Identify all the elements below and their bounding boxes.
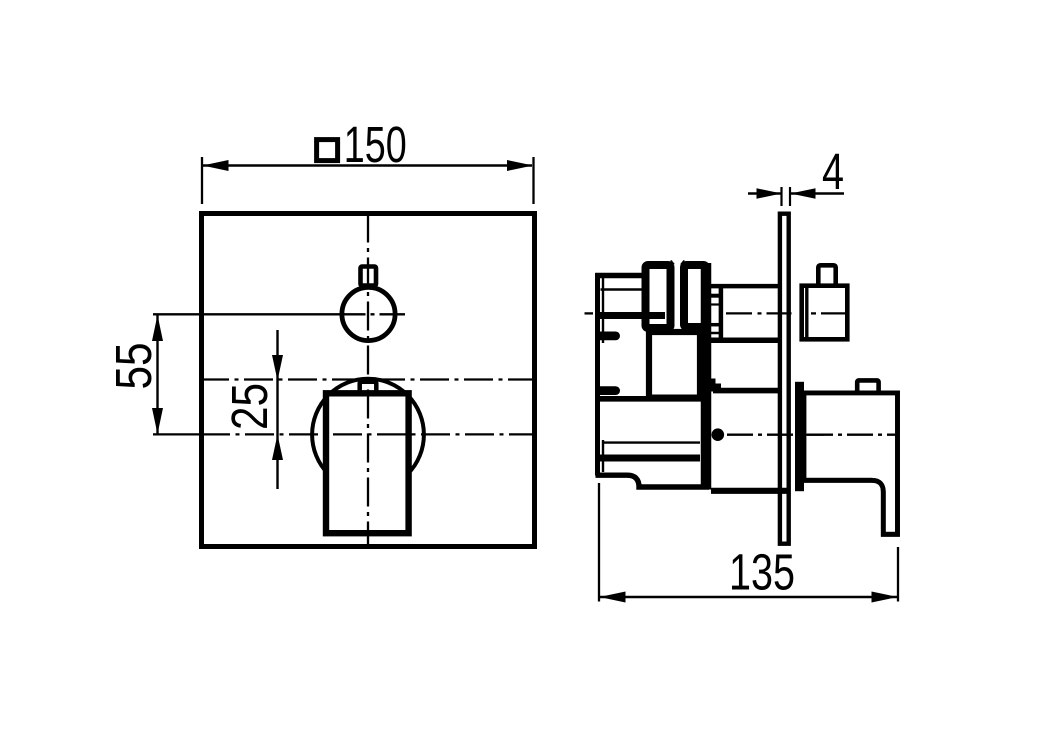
vertical centerline of plate: [367, 214, 369, 547]
dimension 150: dimension line with arrows: [203, 160, 534, 171]
grub screw dot on lever centerline: [712, 428, 725, 441]
wall plate (side view, 4mm): [780, 214, 789, 544]
dimension 150: text: [344, 116, 407, 173]
svg-text:135: 135: [729, 544, 795, 601]
dimension 55: dimension line: [152, 315, 163, 434]
valve body: inner thin vertical line (lower): [602, 440, 604, 472]
dimension 55: text: [105, 343, 162, 390]
knob stem tab (front, top knob): [361, 267, 377, 286]
valve body: top edge: [595, 273, 643, 279]
lever tab (side): [857, 380, 878, 394]
valve body: mid horizontal edge: [599, 396, 703, 402]
svg-text:25: 25: [221, 383, 278, 430]
valve body: inner thin vertical line (upper): [602, 277, 604, 343]
lever boss circle (front): [312, 379, 424, 491]
valve body: thick band at upper centerline: [598, 312, 664, 319]
svg-text:55: 55: [105, 343, 162, 390]
knob center extension line (55 dim, top): [153, 313, 405, 315]
diverter knob (side): [802, 286, 848, 340]
valve body: band across post A: [598, 312, 665, 319]
front plate (150x150 square escutcheon): [202, 214, 535, 547]
valve body: lower thin line: [603, 441, 700, 443]
lever stem tab (front): [360, 382, 377, 394]
valve body: notch between posts: [671, 260, 685, 268]
svg-text:4: 4: [822, 143, 844, 200]
lower sleeve bottom edge (crosses plate): [711, 488, 789, 494]
lever centerline / extension line (55 dim, bottom): [153, 433, 535, 435]
valve body: right vertical bar: [701, 263, 712, 490]
lower spindle sleeve edges: [711, 379, 780, 392]
dimension 135: extension lines: [599, 483, 898, 602]
svg-text:150: 150: [344, 116, 407, 173]
knob tab (side): [818, 265, 835, 287]
valve body: bottom edge with step: [596, 475, 710, 487]
dimension 25: text: [221, 383, 278, 430]
valve body: upper port lug: [595, 332, 620, 341]
valve body: cartridge block: [649, 332, 700, 398]
valve body: post A (upper left boss): [646, 265, 671, 328]
dimension 25: dimension line: [272, 330, 283, 489]
diverter knob circle (front): [342, 287, 395, 340]
valve body: lower thick band: [600, 455, 700, 462]
horizontal centerline of plate: [200, 378, 535, 380]
dimension 135: text: [729, 544, 795, 601]
upper spindle sleeve edges: [706, 286, 780, 340]
dimension 4: lines and arrows: [748, 187, 844, 206]
lever collar (side): [795, 382, 804, 491]
dimension 135: dimension line with arrows: [600, 592, 898, 603]
dimension 4: text: [822, 143, 844, 200]
valve body: lower port lug: [595, 386, 620, 395]
lever handle rectangle (front): [326, 393, 409, 533]
valve body: upper thin line: [601, 288, 643, 290]
valve body: post B (upper right boss): [684, 265, 706, 327]
valve body: left outer edge: [595, 273, 600, 476]
spindle ribs (upper): [708, 284, 721, 340]
lower centerline (side view): [727, 434, 897, 436]
dimension 150: square symbol: [317, 140, 338, 161]
upper centerline (side view): [585, 312, 817, 314]
dimension 150: extension lines: [202, 157, 534, 204]
lever body and handle (side): [804, 393, 898, 534]
